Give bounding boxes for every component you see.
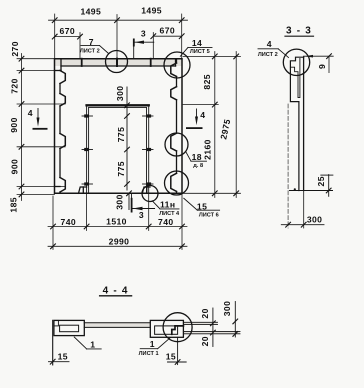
svg-text:670: 670 bbox=[160, 26, 176, 36]
svg-text:ЛИСТ 1: ЛИСТ 1 bbox=[139, 351, 159, 357]
svg-text:11н: 11н bbox=[160, 200, 175, 210]
svg-text:20: 20 bbox=[200, 308, 210, 318]
svg-text:775: 775 bbox=[116, 161, 126, 177]
svg-text:ЛИСТ 6: ЛИСТ 6 bbox=[199, 213, 219, 219]
svg-text:300: 300 bbox=[115, 86, 125, 102]
svg-text:ЛИСТ 2: ЛИСТ 2 bbox=[258, 52, 278, 58]
svg-text:4: 4 bbox=[267, 39, 272, 49]
svg-text:300: 300 bbox=[115, 194, 125, 210]
svg-text:4 - 4: 4 - 4 bbox=[103, 285, 129, 296]
svg-text:185: 185 bbox=[9, 197, 19, 213]
svg-text:3: 3 bbox=[141, 28, 146, 38]
svg-text:18: 18 bbox=[192, 152, 202, 162]
svg-text:1510: 1510 bbox=[106, 216, 127, 226]
svg-text:1495: 1495 bbox=[141, 6, 162, 16]
svg-text:670: 670 bbox=[60, 26, 76, 36]
svg-text:25: 25 bbox=[316, 176, 326, 186]
svg-text:14: 14 bbox=[192, 38, 202, 48]
svg-text:15: 15 bbox=[58, 352, 68, 362]
svg-text:ЛИСТ 4: ЛИСТ 4 bbox=[159, 211, 180, 217]
svg-text:1: 1 bbox=[90, 339, 95, 349]
svg-text:15: 15 bbox=[166, 352, 176, 362]
svg-text:740: 740 bbox=[158, 217, 174, 227]
svg-text:300: 300 bbox=[307, 215, 323, 225]
svg-text:775: 775 bbox=[116, 127, 126, 143]
svg-text:4: 4 bbox=[28, 108, 33, 118]
svg-text:900: 900 bbox=[9, 159, 19, 175]
svg-text:9: 9 bbox=[317, 64, 327, 69]
svg-text:15: 15 bbox=[197, 201, 207, 211]
svg-text:300: 300 bbox=[222, 301, 232, 317]
svg-text:3: 3 bbox=[139, 210, 144, 220]
svg-text:900: 900 bbox=[9, 117, 19, 133]
svg-text:270: 270 bbox=[10, 41, 20, 57]
svg-text:2160: 2160 bbox=[202, 139, 212, 160]
svg-text:2990: 2990 bbox=[109, 237, 130, 247]
svg-text:д. 8: д. 8 bbox=[193, 163, 203, 169]
svg-text:740: 740 bbox=[61, 217, 77, 227]
svg-text:720: 720 bbox=[9, 78, 19, 94]
svg-text:7: 7 bbox=[89, 37, 94, 47]
svg-text:1: 1 bbox=[150, 339, 155, 349]
svg-text:825: 825 bbox=[202, 74, 212, 90]
svg-text:ЛИСТ 2: ЛИСТ 2 bbox=[80, 49, 100, 55]
svg-text:20: 20 bbox=[200, 336, 210, 346]
svg-text:3 - 3: 3 - 3 bbox=[286, 26, 312, 37]
svg-text:4: 4 bbox=[200, 110, 205, 120]
svg-text:ЛИСТ 5: ЛИСТ 5 bbox=[190, 49, 210, 55]
svg-text:1495: 1495 bbox=[80, 6, 101, 16]
